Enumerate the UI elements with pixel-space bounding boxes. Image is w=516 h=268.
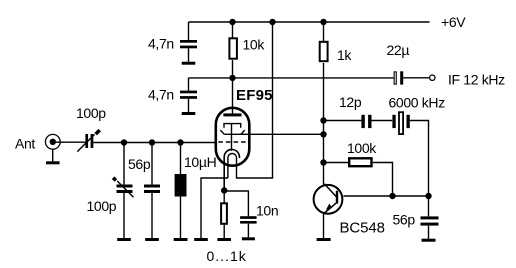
svg-text:Ant: Ant <box>15 136 35 152</box>
svg-text:12p: 12p <box>339 94 362 110</box>
svg-text:+6V: +6V <box>441 14 466 30</box>
svg-text:100k: 100k <box>347 140 377 156</box>
svg-text:IF 12 kHz: IF 12 kHz <box>448 72 505 88</box>
svg-text:56p: 56p <box>128 156 151 172</box>
svg-text:1k: 1k <box>337 47 352 63</box>
svg-text:56p: 56p <box>393 212 416 228</box>
svg-text:100p: 100p <box>87 198 117 214</box>
svg-text:10n: 10n <box>256 203 278 219</box>
svg-text:6000 kHz: 6000 kHz <box>389 95 446 111</box>
svg-text:BC548: BC548 <box>340 220 385 237</box>
svg-text:4,7n: 4,7n <box>148 36 174 52</box>
svg-text:EF95: EF95 <box>236 87 273 104</box>
svg-text:4,7n: 4,7n <box>148 86 174 102</box>
svg-text:10k: 10k <box>243 37 266 53</box>
svg-text:100p: 100p <box>76 105 106 121</box>
svg-text:10µH: 10µH <box>184 154 216 170</box>
svg-text:0...1k: 0...1k <box>207 248 247 264</box>
svg-text:22µ: 22µ <box>387 42 410 58</box>
